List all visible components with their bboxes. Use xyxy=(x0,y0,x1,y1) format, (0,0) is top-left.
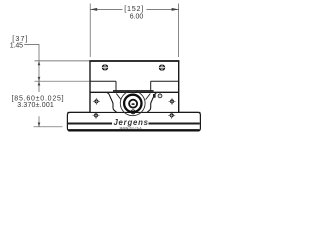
side hole left upper xyxy=(93,98,100,105)
dim line between A and B xyxy=(38,61,40,81)
dim line right part xyxy=(146,8,178,10)
svg-text:1.45: 1.45 xyxy=(10,42,23,49)
bottom extension line xyxy=(34,126,63,128)
pocket right wall xyxy=(147,93,157,113)
arrow up-tip at B (pointing down) xyxy=(38,77,41,81)
plate outline xyxy=(90,61,179,112)
plate bottom seam left xyxy=(90,80,116,82)
arrowhead right xyxy=(172,8,179,11)
pocket mouth stub right xyxy=(150,81,152,91)
svg-text:6.00: 6.00 xyxy=(130,14,144,21)
pocket mouth lip line xyxy=(113,90,154,92)
funnel chamfer left xyxy=(116,94,121,100)
side hole right upper xyxy=(169,98,176,105)
side hole left lower xyxy=(93,112,100,119)
arrowhead left xyxy=(90,8,97,11)
dimension [85.60] 3.370 lower-left xyxy=(34,81,63,126)
plate top edge (thick) xyxy=(89,60,179,62)
flange bottom thick edge xyxy=(68,129,199,131)
clamp circles: outer thin xyxy=(120,91,145,116)
svg-text:3.370±.001: 3.370±.001 xyxy=(17,102,54,109)
plate bottom seam right xyxy=(151,80,179,82)
dim line left part xyxy=(90,8,122,10)
extension line left xyxy=(89,4,91,58)
detent square xyxy=(153,94,156,98)
part: flange outline xyxy=(67,112,200,130)
dimension [152] 6.00 top xyxy=(90,4,178,58)
funnel chamfer right xyxy=(146,94,151,100)
extension line right xyxy=(178,4,180,58)
svg-text:MADE IN U.S.A.: MADE IN U.S.A. xyxy=(120,126,143,130)
detent circle xyxy=(158,94,162,98)
pocket mouth stub left xyxy=(115,81,117,91)
leader elbow xyxy=(24,45,39,61)
dim line upper segment xyxy=(38,81,40,92)
arrow tip down at bottom ext xyxy=(38,123,41,127)
mid ring xyxy=(129,100,137,108)
ext line A top surface xyxy=(35,60,90,62)
dim line lower segment xyxy=(38,116,40,126)
side hole right lower xyxy=(168,112,175,119)
thick ring xyxy=(124,95,141,112)
flange top line full xyxy=(67,111,200,113)
flange seam line (left of logo) xyxy=(68,123,112,125)
pocket left wall xyxy=(106,93,116,113)
arrow tip up at B line xyxy=(38,81,41,85)
top hole right xyxy=(159,64,166,71)
ext line B xyxy=(35,80,90,82)
arrow down-tip at A (pointing up) xyxy=(38,61,41,65)
center bar xyxy=(131,103,134,105)
top hole left xyxy=(102,64,109,71)
flange seam line (right of logo) xyxy=(149,123,200,125)
base top edge full xyxy=(90,91,179,93)
dimension [37] 1.45 left xyxy=(24,45,89,82)
6 o'clock detent circle xyxy=(131,110,135,114)
svg-text:[152]: [152] xyxy=(124,4,143,13)
